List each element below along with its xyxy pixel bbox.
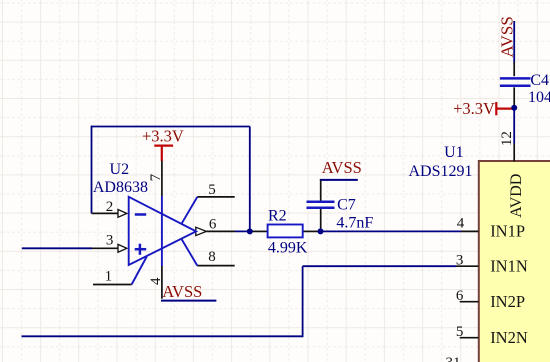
svg-text:6: 6	[209, 216, 217, 232]
svg-text:12: 12	[499, 131, 515, 146]
svg-text:U1: U1	[444, 144, 464, 161]
svg-text:ADS1291: ADS1291	[408, 163, 472, 180]
svg-text:C4: C4	[530, 72, 549, 89]
svg-text:3: 3	[456, 252, 464, 268]
svg-text:AVSS: AVSS	[322, 158, 362, 177]
svg-text:AVDD: AVDD	[508, 174, 525, 218]
svg-text:R2: R2	[268, 208, 287, 225]
svg-text:1: 1	[105, 269, 113, 285]
svg-text:2: 2	[106, 199, 114, 215]
svg-text:4.99K: 4.99K	[268, 240, 308, 257]
svg-text:AVSS: AVSS	[162, 282, 202, 301]
svg-text:IN1P: IN1P	[490, 221, 525, 240]
svg-text:6: 6	[456, 288, 464, 304]
svg-text:IN2P: IN2P	[490, 292, 525, 311]
svg-text:7: 7	[148, 173, 164, 181]
svg-text:8: 8	[208, 249, 216, 265]
svg-text:4: 4	[457, 215, 465, 231]
svg-text:3: 3	[106, 233, 114, 249]
svg-text:5: 5	[456, 324, 464, 340]
svg-text:AD8638: AD8638	[93, 179, 148, 196]
svg-text:U2: U2	[110, 161, 130, 178]
svg-text:4: 4	[148, 277, 164, 285]
svg-text:104: 104	[528, 89, 550, 106]
svg-text:31: 31	[446, 355, 461, 362]
svg-text:+3.3V: +3.3V	[453, 99, 495, 118]
svg-text:C7: C7	[337, 196, 356, 213]
svg-text:+3.3V: +3.3V	[142, 126, 184, 145]
svg-text:IN2N: IN2N	[490, 328, 528, 347]
svg-text:4.7nF: 4.7nF	[336, 215, 373, 232]
svg-text:AVSS: AVSS	[498, 16, 517, 57]
svg-text:5: 5	[208, 182, 216, 198]
svg-text:IN1N: IN1N	[490, 256, 528, 275]
